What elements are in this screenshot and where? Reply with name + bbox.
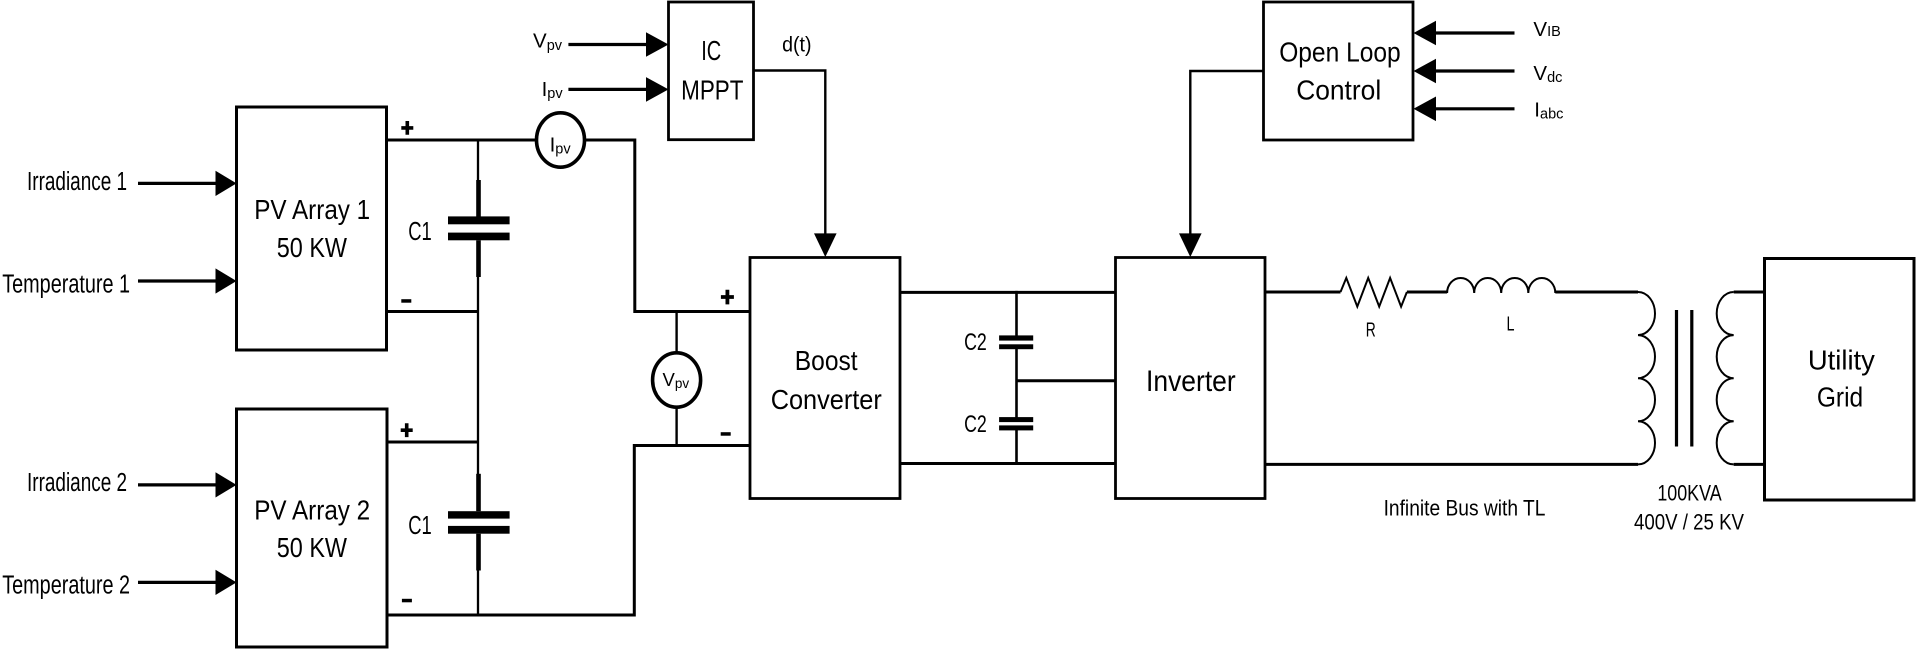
svg-text:MPPT: MPPT xyxy=(681,75,743,106)
node label + (Boost input) xyxy=(721,290,734,305)
svg-text:C1: C1 xyxy=(408,218,432,246)
Open Loop Control block xyxy=(1264,2,1414,140)
svg-text:R: R xyxy=(1366,320,1376,342)
Temperature 1 input arrow xyxy=(2,268,236,298)
voltage meter Vpv xyxy=(653,353,701,407)
svg-text:Converter: Converter xyxy=(771,384,882,415)
wire: Boost to Inverter DC bus bottom xyxy=(900,462,1116,465)
resistor R xyxy=(1341,278,1407,342)
svg-text:400V / 25 KV: 400V / 25 KV xyxy=(1634,509,1744,534)
wire: PV1 + rail to Boost + input xyxy=(385,140,750,312)
svg-text:Irradiance 1: Irradiance 1 xyxy=(27,168,127,196)
Irradiance 2 input arrow xyxy=(27,469,237,498)
PV Array 1 block xyxy=(237,107,387,350)
svg-text:Inverter: Inverter xyxy=(1146,365,1236,398)
wire: C2 midpoint to Inverter xyxy=(1017,379,1116,382)
wire: Inverter AC top line xyxy=(1265,291,1638,294)
inductor L xyxy=(1447,278,1555,336)
capacitor C2 (bottom) xyxy=(964,411,1033,438)
wire: Open Loop Control to Inverter with arrow xyxy=(1190,71,1263,235)
svg-text:50 KW: 50 KW xyxy=(277,532,348,563)
Vpv input arrow to IC MPPT xyxy=(533,30,669,57)
node label + (PV2) xyxy=(401,423,413,437)
svg-text:Irradiance 2: Irradiance 2 xyxy=(27,469,127,497)
wire: secondary to Utility Grid top xyxy=(1734,291,1765,294)
svg-text:IC: IC xyxy=(701,35,721,66)
svg-text:Control: Control xyxy=(1296,74,1381,105)
Vdc input arrow to Open Loop Control xyxy=(1414,59,1563,86)
svg-text:Infinite Bus with TL: Infinite Bus with TL xyxy=(1384,495,1546,520)
wire: PV2 - bottom rail xyxy=(386,614,634,617)
svg-text:PV Array 1: PV Array 1 xyxy=(254,194,370,225)
capacitor C2 (top) xyxy=(964,329,1033,356)
wire: PV1 - to C1 rail xyxy=(385,310,478,313)
transformer core xyxy=(1677,310,1692,447)
svg-text:100KVA: 100KVA xyxy=(1657,480,1722,505)
node label - (PV1) xyxy=(401,299,411,303)
svg-text:C1: C1 xyxy=(408,512,432,540)
IC MPPT block U1 xyxy=(669,2,754,140)
node label - (PV2) xyxy=(402,599,412,603)
C1 rail wire segments xyxy=(477,139,479,617)
svg-text:C2: C2 xyxy=(964,329,987,356)
svg-text:50 KW: 50 KW xyxy=(277,232,348,263)
current meter Ipv xyxy=(537,113,585,167)
node label + (PV1) xyxy=(401,121,413,135)
PV Array 2 block xyxy=(237,409,388,647)
transformer secondary winding xyxy=(1717,292,1734,464)
Irradiance 1 input arrow xyxy=(27,168,237,196)
svg-text:Grid: Grid xyxy=(1817,382,1863,413)
wire: Inverter AC bottom return line xyxy=(1265,463,1638,466)
wire: PV2 + to C1 rail xyxy=(386,441,478,444)
Ipv input arrow to IC MPPT xyxy=(542,77,669,102)
wire: Boost to Inverter DC bus top xyxy=(900,291,1116,294)
svg-text:d(t): d(t) xyxy=(782,32,811,56)
node label - (Boost input) xyxy=(721,432,731,436)
wire: Vpv meter tap xyxy=(675,312,677,446)
svg-text:Boost: Boost xyxy=(795,345,858,376)
svg-text:PV Array 2: PV Array 2 xyxy=(254,495,370,526)
svg-text:C2: C2 xyxy=(964,411,987,438)
Utility Grid block xyxy=(1765,259,1915,501)
svg-text:L: L xyxy=(1507,314,1515,336)
Temperature 2 input arrow xyxy=(2,570,236,600)
transformer primary winding xyxy=(1638,292,1655,464)
svg-text:Utility: Utility xyxy=(1808,344,1875,375)
Iabc input arrow to Open Loop Control xyxy=(1414,97,1564,123)
capacitor C1 (top) xyxy=(408,180,509,277)
capacitor C1 (bottom) xyxy=(408,474,509,571)
wire: C2 rail segments xyxy=(1015,291,1018,465)
Boost Converter block xyxy=(750,258,900,499)
wire: bottom rail up to Boost - input xyxy=(634,446,750,617)
svg-text:Open Loop: Open Loop xyxy=(1279,36,1401,67)
wire: secondary to Utility Grid bottom xyxy=(1734,463,1765,466)
wire: d(t) from IC MPPT to Boost with arrow xyxy=(754,32,837,257)
VIB input arrow to Open Loop Control xyxy=(1414,18,1561,46)
svg-text:Temperature 1: Temperature 1 xyxy=(2,271,130,299)
svg-text:Temperature 2: Temperature 2 xyxy=(2,572,130,600)
Inverter block xyxy=(1116,258,1266,499)
